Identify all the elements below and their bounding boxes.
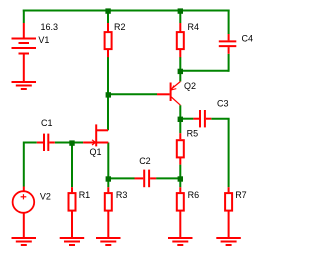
wire C1 right to node	[55, 142, 72, 144]
junction node C2 / R5 / R6	[178, 176, 183, 181]
wire node down to Q1 drain	[107, 94, 109, 130]
wire down to R7	[228, 119, 230, 188]
resistor R3	[105, 187, 112, 238]
svg-text:Q1: Q1	[90, 147, 102, 157]
resistor R1	[69, 187, 76, 238]
svg-text:C3: C3	[217, 99, 229, 109]
wire C4 to R4 node	[180, 70, 228, 72]
capacitor C2	[135, 170, 157, 188]
svg-text:C2: C2	[139, 156, 151, 166]
battery V1	[12, 23, 37, 82]
svg-text:Q2: Q2	[184, 81, 196, 91]
transistor Q2	[157, 83, 171, 102]
capacitor C4	[219, 34, 237, 54]
wire top rail	[23, 10, 230, 12]
capacitor C1	[37, 134, 55, 151]
capacitor C3	[193, 110, 211, 127]
svg-text:16.3: 16.3	[41, 22, 59, 32]
wire R4 top lead	[179, 11, 181, 24]
wire corner to C1 left	[24, 142, 37, 144]
wire C4 top lead	[228, 10, 230, 35]
ground at V2	[12, 238, 37, 245]
wire R5 top lead	[179, 119, 181, 134]
wire R2 top lead	[107, 11, 109, 24]
resistor R7	[225, 187, 232, 238]
wire C4 bottom lead	[228, 54, 230, 72]
ground at R6	[168, 238, 193, 245]
svg-text:R3: R3	[116, 190, 128, 200]
junction node R4 top	[178, 8, 183, 13]
svg-text:V1: V1	[38, 35, 49, 45]
svg-text:C4: C4	[242, 34, 254, 44]
arrow of Q2 emitter	[171, 86, 176, 90]
wire battery V1 top drop	[23, 10, 25, 24]
resistor R5	[177, 133, 184, 164]
wire Q2 collector down	[179, 105, 181, 119]
wire node to Q1 gate	[72, 142, 83, 144]
junction node R4 bottom / Q2 emitter	[178, 69, 183, 74]
svg-text:R2: R2	[114, 22, 126, 32]
source V2	[13, 187, 35, 239]
wire R4 bottom lead	[179, 57, 181, 71]
wire node to C3 left	[180, 118, 193, 120]
wire Q2 emitter to node	[179, 71, 181, 82]
svg-text:C1: C1	[41, 118, 53, 128]
svg-text:R1: R1	[79, 190, 91, 200]
wire C3 right to corner	[211, 118, 229, 120]
wire R3 node to C2 left	[108, 177, 134, 179]
junction node C1 / R1 / Q1 gate	[69, 140, 74, 145]
wire R1 top lead	[71, 143, 73, 188]
wire V2 up to C1 corner	[23, 142, 25, 187]
ground at battery V1	[12, 82, 37, 89]
junction node Q1 source / R3 / C2	[106, 176, 111, 181]
resistor R2	[105, 23, 112, 57]
plus sign of V2	[21, 194, 27, 199]
svg-text:R5: R5	[187, 129, 199, 139]
ground at R3	[96, 238, 121, 245]
wire Q1 source down to node	[107, 143, 109, 179]
arrow of Q1 gate	[92, 140, 96, 145]
svg-text:V2: V2	[40, 192, 51, 202]
wire R2 bottom to node	[107, 57, 109, 94]
ground at R7	[216, 238, 241, 245]
wire C2 right to node	[156, 177, 180, 179]
transistor Q1	[83, 124, 108, 146]
resistor R4	[177, 23, 184, 57]
svg-text:R4: R4	[188, 22, 200, 32]
junction node Q2 collector / C3	[178, 117, 183, 122]
svg-text:R6: R6	[188, 190, 200, 200]
junction node R2 bottom / Q2 base	[106, 92, 111, 97]
svg-text:R7: R7	[235, 190, 247, 200]
wire R3 top lead	[107, 178, 109, 187]
resistor R6	[177, 187, 184, 238]
wire R6 top lead	[179, 178, 181, 187]
ground at R1	[60, 238, 84, 245]
wire node to Q2 base	[108, 93, 157, 95]
wire R5 bottom lead	[179, 165, 181, 179]
junction node R2 top	[105, 8, 110, 13]
